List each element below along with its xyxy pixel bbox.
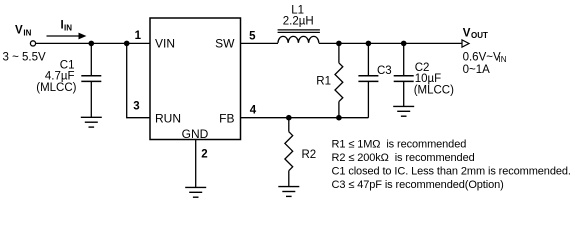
capacitor C2: [394, 43, 414, 106]
svg-text:1: 1: [135, 30, 142, 42]
svg-text:R1: R1: [316, 76, 331, 88]
ground C2: [393, 106, 414, 116]
junction R1 tap: [336, 41, 342, 47]
ground R2: [278, 187, 299, 197]
junction C2 tap: [401, 41, 407, 47]
wire output rail: [319, 42, 462, 44]
svg-text:2.2µH: 2.2µH: [283, 15, 314, 27]
capacitor C1: [81, 43, 101, 117]
svg-text:C1 closed to IC. Less than 2mm: C1 closed to IC. Less than 2mm is recomm…: [332, 166, 571, 178]
svg-text:RUN: RUN: [155, 112, 181, 126]
label 0.6V~VIN: [463, 52, 507, 64]
svg-text:R1 ≤ 1MΩ is recommended: R1 ≤ 1MΩ is recommended: [332, 139, 467, 151]
svg-text:IN: IN: [499, 55, 507, 64]
svg-text:3 ~ 5.5V: 3 ~ 5.5V: [3, 52, 46, 64]
svg-text:C1: C1: [60, 59, 75, 71]
svg-text:V: V: [15, 25, 23, 37]
svg-text:VIN: VIN: [155, 37, 175, 51]
node VIN input terminal: [30, 41, 35, 46]
svg-text:FB: FB: [219, 112, 234, 126]
inductor L1: [278, 30, 320, 43]
ground C1: [81, 117, 102, 127]
svg-text:C2: C2: [415, 62, 430, 74]
resistor R2: [285, 118, 293, 187]
wire RUN: [127, 43, 150, 117]
junction C1 tap: [89, 41, 95, 47]
current arrow IIN: [47, 33, 87, 40]
wire input rail: [36, 42, 150, 44]
wire SW to inductor: [241, 42, 278, 44]
label VOUT: [463, 27, 488, 40]
junction RUN tap: [124, 41, 130, 47]
svg-text:GND: GND: [182, 127, 209, 141]
svg-text:R2 ≤ 200kΩ is recommended: R2 ≤ 200kΩ is recommended: [332, 152, 475, 164]
label IIN: [61, 20, 73, 33]
svg-text:R2: R2: [302, 149, 317, 161]
svg-text:0~1A: 0~1A: [463, 64, 491, 76]
svg-text:C3: C3: [377, 65, 392, 77]
svg-text:4.7µF: 4.7µF: [45, 71, 75, 83]
resistor R1: [335, 43, 343, 117]
svg-text:(MLCC): (MLCC): [36, 82, 76, 94]
svg-text:(MLCC): (MLCC): [414, 85, 454, 97]
junction C3 tap: [366, 41, 372, 47]
svg-text:C3 ≤ 47pF is recommended(Optio: C3 ≤ 47pF is recommended(Option): [332, 179, 504, 191]
output arrow VOUT: [462, 40, 469, 47]
svg-text:2: 2: [201, 149, 207, 161]
svg-text:4: 4: [250, 104, 257, 116]
junction R2 tap: [286, 115, 292, 121]
wire FB rail: [241, 117, 369, 119]
svg-text:IN: IN: [23, 28, 31, 37]
capacitor C3: [358, 43, 378, 117]
label C1 value: [36, 59, 76, 94]
svg-text:IN: IN: [64, 23, 72, 32]
svg-text:10µF: 10µF: [415, 73, 441, 85]
wire GND pin: [195, 140, 197, 188]
ground IC GND: [185, 187, 206, 197]
svg-text:V: V: [463, 27, 471, 39]
label VIN: [15, 25, 32, 38]
svg-text:0.6V~V: 0.6V~V: [463, 52, 501, 64]
svg-text:SW: SW: [215, 37, 235, 51]
svg-text:OUT: OUT: [471, 31, 488, 40]
label C2 value: [414, 62, 454, 97]
junction R1 bottom: [336, 115, 342, 121]
IC U1 regulator box: [150, 18, 241, 140]
svg-text:3: 3: [133, 101, 139, 113]
svg-text:5: 5: [249, 30, 256, 42]
